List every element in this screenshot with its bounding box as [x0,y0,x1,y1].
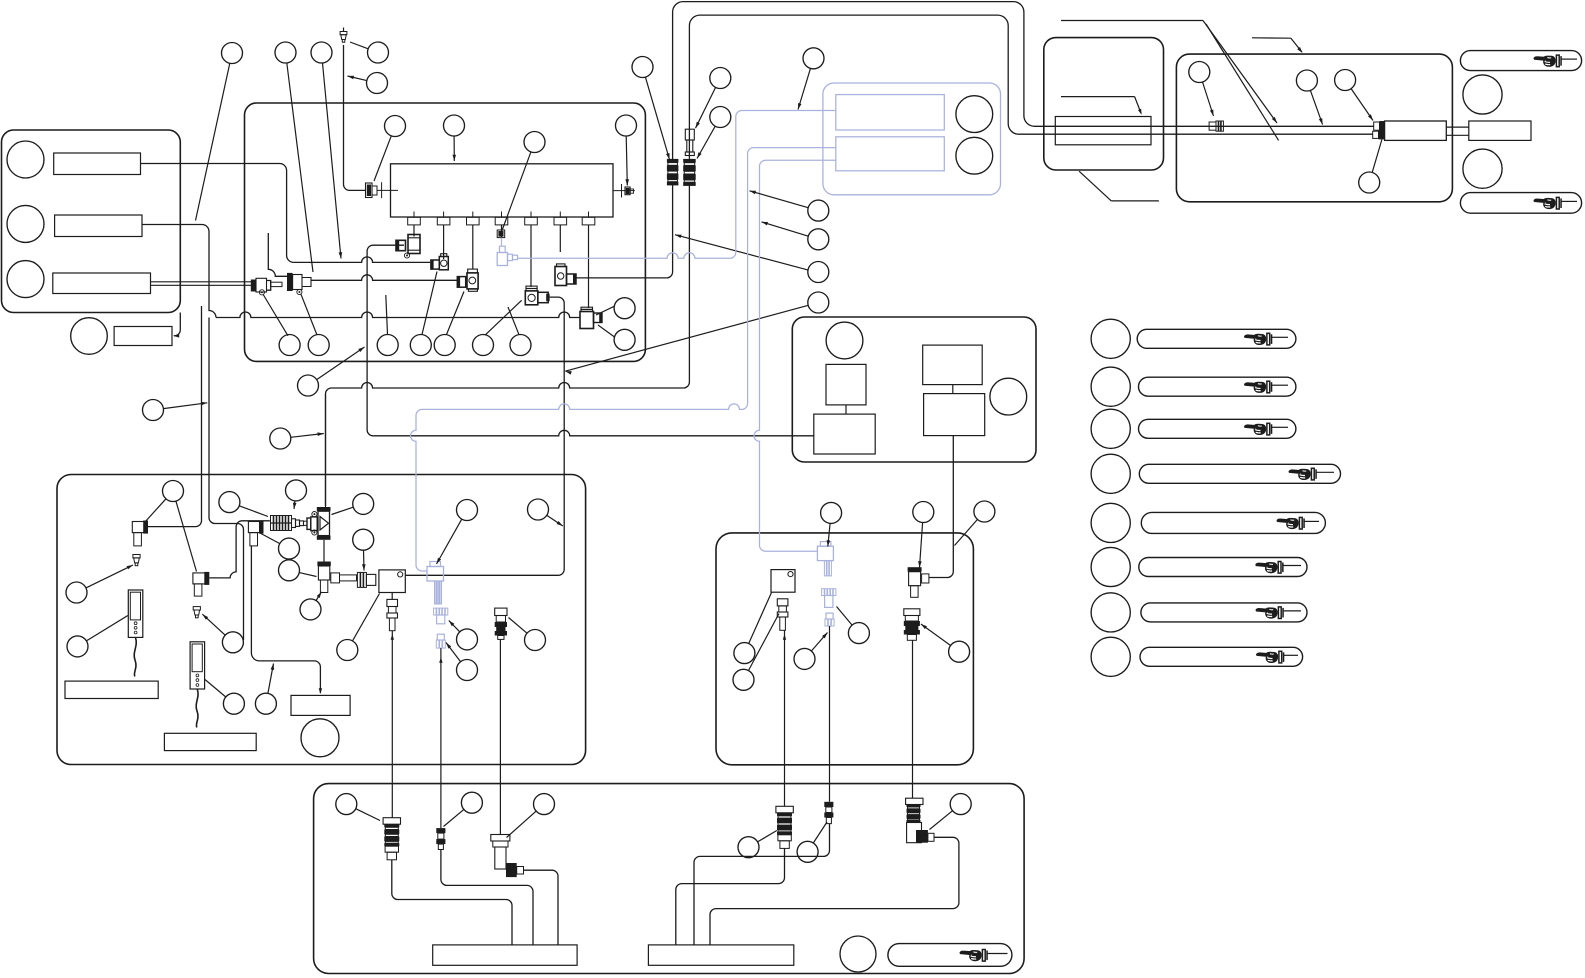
grease nipple (top, above manifold) [340,32,347,43]
controller label rect 2 (blue) [836,137,945,171]
relay label rect 2 [924,394,985,436]
wire from BM-P1 down to bottom box [784,630,786,806]
leader arrow into box F top [1252,37,1291,39]
balloon circle left-4 (below box) [71,318,108,355]
balloon circle left-2 [7,205,44,242]
group box: hose reel box (F) [1176,54,1452,202]
balloon circle M3 [524,132,545,153]
label rect BL-1 [65,681,158,698]
wire B (coupler2 riser to top-right) [689,15,1372,159]
balloon circle C6 [632,57,653,78]
union fitting 1 (straight hose fitting) [251,280,256,292]
hose fitting H east to coupler line [576,277,667,279]
label rect left-2 [55,215,142,237]
blue elbow (bottom-middle box) [817,546,833,560]
balloon circle row-7 [510,335,531,356]
balloon BL1 [163,481,184,502]
link list row 7: balloon circle [1091,593,1130,632]
elbow F3 (swivel elbow) [457,277,465,288]
balloon BL2 [66,582,87,603]
balloon big BL16 [301,719,339,757]
inlet fitting bottom (cylinder) [1373,131,1379,138]
relay square [826,364,866,405]
balloon BL14 [223,693,244,714]
balloon BL18 [457,500,478,521]
balloon circle S4 [808,292,829,313]
group box: pump assembly (left) [2,130,181,313]
elbow A (bottom-left box) [132,522,147,533]
grease nipple above blue tee [497,230,505,238]
blue fitting 3 (bottom-left box) [437,634,444,640]
link list row 1: link pill with pointing hand [1137,329,1296,348]
group box: relay/solenoid box [792,317,1036,462]
balloon circle C2 [275,42,296,63]
balloon BB6 [950,794,971,815]
balloon BL20 [457,660,478,681]
balloon BL5 [286,480,307,501]
balloon circle C3 [311,42,332,63]
balloon BL8 [279,560,300,581]
right column balloon big 1 [1463,75,1502,114]
balloon BL19 [457,629,478,650]
wire from blue fitting 3 down to bottom box [440,648,442,828]
balloon BB1 [336,794,357,815]
balloon BL4 [219,492,240,513]
link list row 8: balloon circle [1091,637,1130,676]
striped connector (greased coupling) [271,516,292,531]
balloon circle row-1 [279,335,300,356]
balloon circle C4 [368,42,389,63]
balloon circle (left of inner box) [143,400,164,421]
blue fitting 2 (bottom-middle box) [822,589,836,596]
balloon big BB7 [840,936,876,972]
quick coupler BB-C1 [383,818,400,825]
wire elbow C2 leg to label rect BL-3 [251,546,320,693]
wire from pump box corner to label rect left-4 [174,313,180,336]
box F balloon 4 [1359,172,1380,193]
balloon BL15 [255,693,276,714]
balloon circle C9 (above controller box) [803,48,824,69]
label rect left-4 [114,327,172,346]
balloon circle S1 [808,200,829,221]
hose R3 tube pair (rect3 to union fitting) [151,281,252,283]
link square to coil rect [845,405,847,414]
balloon BL6 [353,493,374,514]
junction box B_t [379,570,405,593]
link list row 6: link pill with pointing hand [1139,558,1307,577]
hose R1 (rect1 to manifold port 2 fitting) [141,164,294,263]
wire from relay rect2 down to bottom-middle box elbow [929,436,953,578]
blue tube 2 (controller rect A2 to bottom-left box) [742,148,837,410]
balloon BL10 [300,599,321,620]
port riser 4 to grease nipple / blue tee [501,225,503,238]
balloon circle row-3 [377,335,398,356]
hose R2 (rect2 down then east to elbow G2) [142,225,216,318]
leader below box E [1079,171,1111,201]
balloon BM8 [949,641,970,662]
plug fitting BM-P1 [777,599,788,606]
sensor S1 (proximity switch with cable) [128,590,143,637]
balloon BL7 [279,538,300,559]
link list row 2: balloon circle [1091,367,1130,406]
box F balloon 2 [1296,70,1317,91]
port riser 3 to elbow F3 [472,225,474,269]
balloon circle S2 [808,229,829,250]
fitting BB-F2 (small) [436,828,445,833]
balloon circle row-4 [410,335,431,356]
wire A (coupler1 riser to top-right) [673,2,1374,161]
wire elbow E_a to striped connector [209,521,270,578]
junction box BM (with eyelet) [771,570,795,593]
leader L1 (from coupler riser to balloon S3) [675,235,808,270]
balloon BM2 [913,502,934,523]
hose BB-w3 [524,870,559,945]
manifold block [391,164,614,217]
wire from plug P1 to bottom box (left) [391,631,393,818]
balloon circle row-9 (right pair lower) [614,329,635,350]
elbow T2 below tee [323,540,325,562]
wire from plug P2 to bottom box elbow [499,639,501,834]
fitting F1 (hose port fitting) [396,240,406,250]
relay balloon circle 2 [990,378,1027,415]
balloon BM4 [734,643,755,664]
harness label rect 2 [648,945,793,965]
elbow G2 (swivel elbow) [580,312,594,329]
balloon BM5 [733,669,754,690]
balloon BB5 [797,841,818,862]
balloon BL11 [337,640,358,661]
link list row 3: balloon circle [1091,409,1130,448]
grease point on union 1 [259,290,264,295]
top right pill 2 [1460,193,1581,214]
balloon circle M2 [444,115,465,136]
grease point F1 [404,253,409,258]
connector link [304,521,308,525]
label rect in box E [1055,117,1151,145]
hose BB-w4 [676,848,785,945]
balloon BL13 [222,632,243,653]
link list row 7: link pill with pointing hand [1141,603,1307,622]
balloon circle (inner box top area) [270,428,291,449]
label rect left-1 [54,153,141,175]
group box: manifold assembly (central) [245,103,646,361]
group box: sensor kit box (bottom-left) [57,475,586,765]
link to end rect [1446,126,1469,128]
grease points on tee [312,511,317,516]
balloon circle left-3 [7,261,44,298]
group box: harness box (bottom) [314,784,1025,974]
white sleeve (on wire B) [685,129,694,140]
balloon circle row-6 [473,335,494,356]
elbow C2 (to connector) [248,522,262,533]
grease point on union 2 [297,289,302,294]
blue elbow (bottom-left box) [427,567,444,582]
controller balloon circle 1 [956,96,993,133]
label rect BL-3 [291,695,350,715]
link between relay label rects [952,385,954,394]
hose BB-w1 [392,860,512,945]
link list row 3: link pill with pointing hand [1139,419,1296,438]
balloon BB2 [461,792,482,813]
bottom link pill [888,944,1012,967]
port riser 1 to elbow F1 [413,225,415,237]
balloon BL9 [353,529,374,550]
balloon circle row-5 [434,335,455,356]
controller balloon circle 2 [956,137,993,174]
hose R2 branch (down to sensor area) [209,318,244,641]
elbow E_a (lower-left) [193,573,207,584]
blue tube 3 (controller rect A2 lower to bottom-middle box) [754,160,836,551]
leader L2 (from inner box edge to balloon S4) [565,305,808,371]
label rect BL-2 [164,733,256,750]
tube from elbow T2 [331,573,340,583]
fitting on hose (box F) [1209,122,1216,130]
wire from blue fitting 3 down to bottom box (middle) [829,626,831,802]
link list row 1: balloon circle [1091,319,1130,358]
fitting F_t [357,572,366,587]
hose from union 2 to elbow F3 [311,275,457,281]
port riser 6 to elbow H [559,225,561,252]
manifold port R fitting [613,190,635,192]
group box: small box top-right (E) [1044,38,1164,170]
label rect left-3 [53,273,151,294]
inlet fitting top (cylinder) [1374,122,1380,130]
leader pair to box E top (diagonals D1 D2) [1061,20,1203,22]
balloon BB3 [534,794,555,815]
harness label rect 1 [433,945,577,965]
stub wire above union 2 [268,233,287,276]
wire from grease nipple down to manifold port L [343,45,365,190]
balloon circle M4 [616,115,637,136]
balloon BL3 [67,636,88,657]
hose BB-w6 [710,837,959,945]
manifold port L fitting [366,183,373,198]
controller label rect 1 (blue) [836,95,945,130]
port riser 2 to fitting F2 [443,225,445,259]
quick coupler 2 (on wire B) [683,159,696,163]
quick coupler BB-C4 [776,806,793,813]
balloon circle (above inner box) [298,375,319,396]
hose from F1 west then south to relay box (W2) [367,245,404,436]
balloon BM3 [974,501,995,522]
plug fitting P1 below junction box [391,593,393,600]
balloon BL17 (near inner box edge) [528,499,549,520]
manifold port L centerline cross [377,189,398,191]
tube between unions [271,282,282,286]
hose BB-w2 [441,850,533,945]
tee valve T1 [317,507,331,511]
elbow BB-E6 [906,798,923,804]
grease fitting B [133,555,140,566]
balloon circle C5 [367,73,388,94]
coil rect [814,414,875,454]
connector taper rings [292,519,296,528]
plug fitting BM-P2 (ringed) [904,609,920,616]
wire from BM-P2 down to bottom box (right) [912,640,914,798]
link list row 4: balloon circle [1091,454,1130,493]
link list row 8: link pill with pointing hand [1140,647,1303,666]
box F balloon 3 [1335,70,1356,91]
balloon BB4 [738,837,759,858]
plug fitting P2 (right-bottom of box) [495,608,507,615]
balloon BM7 [794,648,815,669]
hose BB-w5 [694,824,830,945]
link list row 6: balloon circle [1091,547,1130,586]
wire riser above tee (to hose W1) [325,394,327,507]
link list row 5: link pill with pointing hand [1141,512,1325,533]
link list row 4: link pill with pointing hand [1139,464,1340,483]
box F balloon 1 [1189,62,1210,83]
fitting H (hose port fitting) [555,267,567,286]
wire from elbow A up [148,306,202,527]
hose W1 (coupler2 riser down & across to tee riser) [683,185,689,388]
balloon circle S3 [808,262,829,283]
fitting F2 (hose nipple) [431,260,439,269]
grease fitting D [193,607,200,618]
balloon circle row-2 [308,335,329,356]
port riser 7 to elbow G2 [588,225,590,308]
group box: sensor kit box (bottom-middle) [716,533,973,765]
blue tube 1 (tee to controller rect A1) [518,253,730,259]
balloon circle C7 [710,68,731,89]
reel cylinder [1385,121,1447,140]
link list row 5: balloon circle [1091,503,1130,542]
balloon circle C8 [710,107,731,128]
manifold bottom port stubs [413,212,415,218]
group box: controller box (blue, top) [823,83,1001,195]
elbow BB-E3 [491,835,510,842]
right column balloon big 2 [1463,149,1502,188]
link list row 2: link pill with pointing hand [1139,377,1296,396]
leader above rect E [1061,96,1135,98]
balloon BL21 [525,630,546,651]
blue tee fitting [497,253,507,266]
union fitting 2 (hose end fitting) [287,273,293,291]
elbow G (swivel elbow) [525,291,538,305]
end rect G [1469,121,1531,140]
sensor S2 (proximity switch with cable) [190,642,205,689]
relay label rect 1 [923,345,983,385]
port riser 5 to elbow G [530,225,532,287]
elbow BM-E (right) [908,567,922,572]
balloon circle left-1 [7,141,44,178]
balloon circle M1 [385,116,406,137]
hose from elbow G down to junction box B_t [405,297,564,575]
balloon circle C1 [222,43,243,64]
blue fitting 3 (bottom-middle box) [826,613,833,619]
fitting BB-F5 (small) [824,802,833,807]
quick coupler 1 (on wire A) [667,159,679,163]
balloon BM6 [848,623,869,644]
balloon BM1 [821,502,842,523]
relay balloon circle [826,322,863,359]
top right pill 1 [1460,51,1581,71]
blue fitting 2 (bottom-left box) [434,608,448,615]
balloon circle row-8 (right pair upper) [614,298,635,319]
